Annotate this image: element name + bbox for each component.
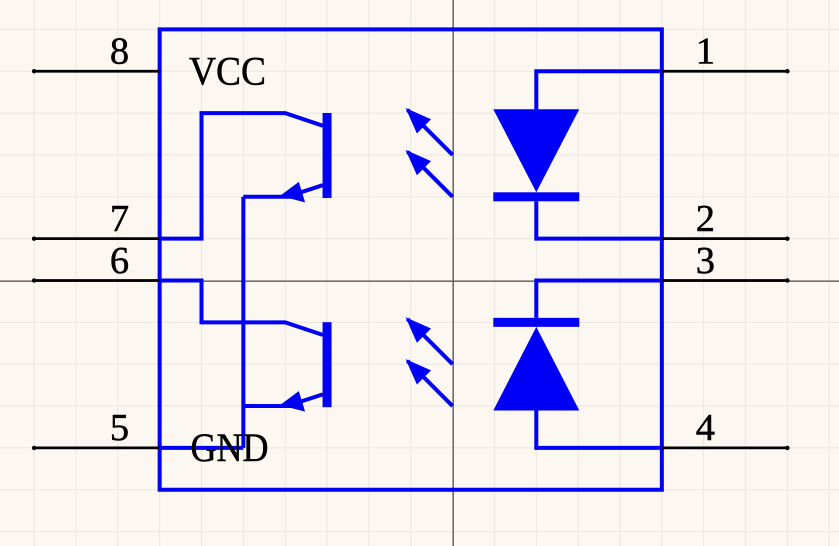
svg-text:4: 4 xyxy=(696,407,715,449)
svg-text:5: 5 xyxy=(110,407,129,449)
svg-text:8: 8 xyxy=(110,31,129,73)
svg-text:6: 6 xyxy=(110,240,129,282)
svg-text:2: 2 xyxy=(696,198,715,240)
svg-text:1: 1 xyxy=(696,31,715,73)
svg-text:3: 3 xyxy=(696,240,715,282)
svg-text:7: 7 xyxy=(110,198,129,240)
svg-text:VCC: VCC xyxy=(189,49,266,94)
svg-text:GND: GND xyxy=(191,425,269,470)
